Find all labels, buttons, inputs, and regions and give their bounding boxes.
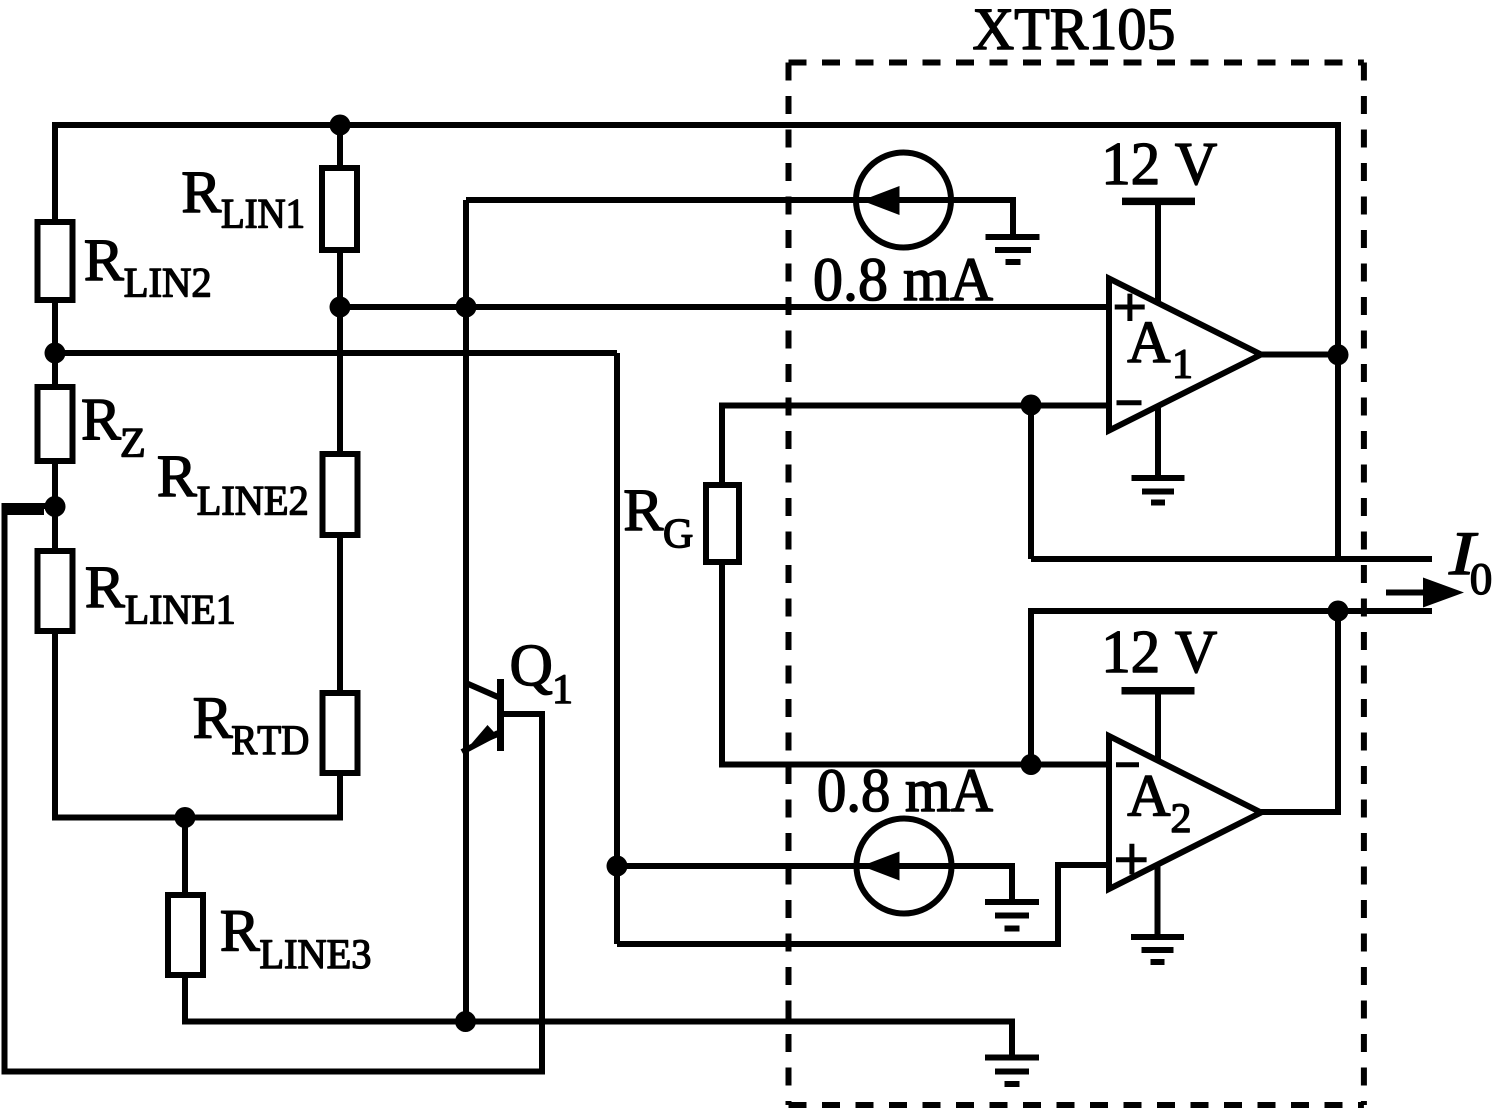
label A1: [1128, 322, 1191, 377]
label Q1: [512, 645, 571, 703]
label 12 V (A1): [1107, 144, 1217, 185]
current source CS2 circle: [857, 819, 952, 914]
wire: A1 non-inverting input line: [340, 304, 1109, 310]
wire: R_LINE3 bottom to ground row into box: [185, 975, 1012, 1058]
wire: to current source 1 and its ground stem: [466, 200, 1013, 236]
resistor R_RTD: [323, 693, 358, 773]
XTR105 dashed boundary box: top edge: [789, 60, 1364, 66]
label 0.8 mA (CS1): [815, 259, 992, 301]
wire: left column R_Z to R_LINE1: [52, 461, 58, 551]
junction dot Q1 column / A1 + line: [456, 297, 477, 318]
label R_Z: [83, 400, 144, 457]
current source CS1 circle: [856, 153, 951, 248]
wire: 12V stem for A1: [1155, 205, 1161, 303]
ground G2 (below A1): [1132, 475, 1185, 481]
wire: A1 ground stem: [1155, 406, 1161, 478]
wire: A1 inverting input to R_G top: [722, 406, 1109, 486]
junction dot current source 2 tap: [607, 856, 628, 877]
transistor Q1 collector diagonal: [466, 683, 498, 697]
label I_0 output current: [1449, 533, 1491, 594]
junction dot ground row / Q1 column: [455, 1011, 476, 1032]
current source CS1 wire through: [856, 197, 952, 203]
transistor Q1 base bar: [497, 679, 504, 751]
op-amp A1 minus sign: [1117, 400, 1142, 405]
wire: A2 non-inverting input path: [617, 865, 1109, 944]
wire: A2 ground stem: [1155, 863, 1161, 937]
resistor R_LINE2: [323, 454, 358, 535]
wire: A1 feedback vertical: [1028, 406, 1034, 560]
junction dot R_Z top node: [45, 343, 66, 364]
XTR105 dashed boundary box: right edge: [1361, 63, 1367, 1106]
resistor R_LINE1: [38, 551, 73, 631]
ground G1 (current source 1): [986, 234, 1040, 240]
label 12 V (A2): [1107, 632, 1217, 673]
current source CS2 arrowhead: [862, 852, 900, 881]
wire: to current source 2 and its ground stem: [617, 866, 1012, 902]
junction dot A1 output: [1328, 344, 1349, 365]
resistor R_LINE3: [168, 895, 203, 975]
op-amp A2 plus sign: [1116, 844, 1147, 875]
junction dot A1 inverting feedback: [1021, 395, 1042, 416]
current source CS1 arrowhead: [862, 186, 900, 215]
ground G4 (bottom rail): [985, 1055, 1039, 1061]
wire: left column R_LINE1 down and bottom-left run to R_RTD bottom: [55, 631, 340, 818]
label R_LIN2: [86, 241, 210, 297]
wire: R_G bottom to A2 inverting input: [722, 562, 1109, 765]
label XTR105: [974, 9, 1173, 50]
label R_LINE3: [222, 911, 370, 968]
op-amp A1 triangle: [1109, 279, 1261, 431]
wire: left outer loop to Q1 base: [5, 506, 543, 1072]
junction dot A2 inverting feedback: [1021, 754, 1042, 775]
ground G5 (below A2): [1131, 934, 1184, 940]
label R_G: [625, 491, 692, 548]
12V supply bar A2: [1122, 687, 1195, 695]
label 0.8 mA (CS2): [819, 770, 992, 812]
junction dot R_LIN1 bottom node: [330, 297, 351, 318]
ground G3 (current source 2): [985, 899, 1039, 905]
op-amp A2 triangle: [1109, 736, 1261, 889]
transistor Q1 emitter diagonal: [462, 733, 498, 752]
resistor R_G: [706, 485, 739, 562]
wire: A1 output stub: [1261, 352, 1338, 358]
wire: R_LINE3 top stub: [182, 818, 188, 896]
junction dot output line B: [1328, 601, 1349, 622]
junction dot R_LINE3 node: [175, 807, 196, 828]
wire: left column R_LIN2 to R_Z: [52, 300, 58, 387]
I_0 output arrow: [1386, 590, 1426, 596]
wire: output line B with A2 feedback riser: [1031, 611, 1432, 765]
resistor R_LIN1: [322, 168, 357, 250]
wire: 12V stem for A2: [1155, 694, 1161, 760]
resistor R_Z: [38, 387, 73, 461]
current source CS2 wire through: [857, 863, 951, 869]
wire: Q1 collector-emitter column: [463, 200, 469, 1022]
wire: output line A: [1031, 556, 1432, 562]
12V supply bar A1: [1122, 198, 1195, 206]
XTR105 dashed boundary box: bottom edge: [789, 1102, 1364, 1108]
XTR105 dashed boundary box: left edge: [786, 63, 792, 1106]
wire: R_LIN1 top stub: [337, 125, 343, 168]
label R_RTD: [194, 698, 307, 754]
wire: vertical line x617: [614, 353, 620, 944]
label R_LIN1: [183, 173, 303, 228]
wire: top supply rail from left column down to A1 output feedback line: [55, 125, 1338, 559]
wire: R_LINE2 bottom to R_RTD top: [337, 535, 343, 693]
label R_LINE1: [87, 568, 234, 624]
wire: short corner stub at left edge: [2, 509, 45, 515]
wire: A2 output stub and feedback vertical: [1261, 611, 1338, 812]
wire: R_Z node horizontal line: [55, 350, 617, 356]
junction dot top rail / R_LIN1: [330, 115, 351, 136]
resistor R_LIN2: [38, 222, 73, 300]
junction dot R_Z bottom node: [45, 496, 66, 517]
op-amp A2 minus sign: [1116, 762, 1139, 767]
op-amp A1 plus sign: [1115, 294, 1145, 321]
label A2: [1128, 776, 1189, 832]
label R_LINE2: [159, 457, 307, 515]
wire: R_LIN1 bottom to R_LINE2 top: [337, 250, 343, 454]
transistor Q1 emitter arrowhead: [466, 725, 499, 750]
